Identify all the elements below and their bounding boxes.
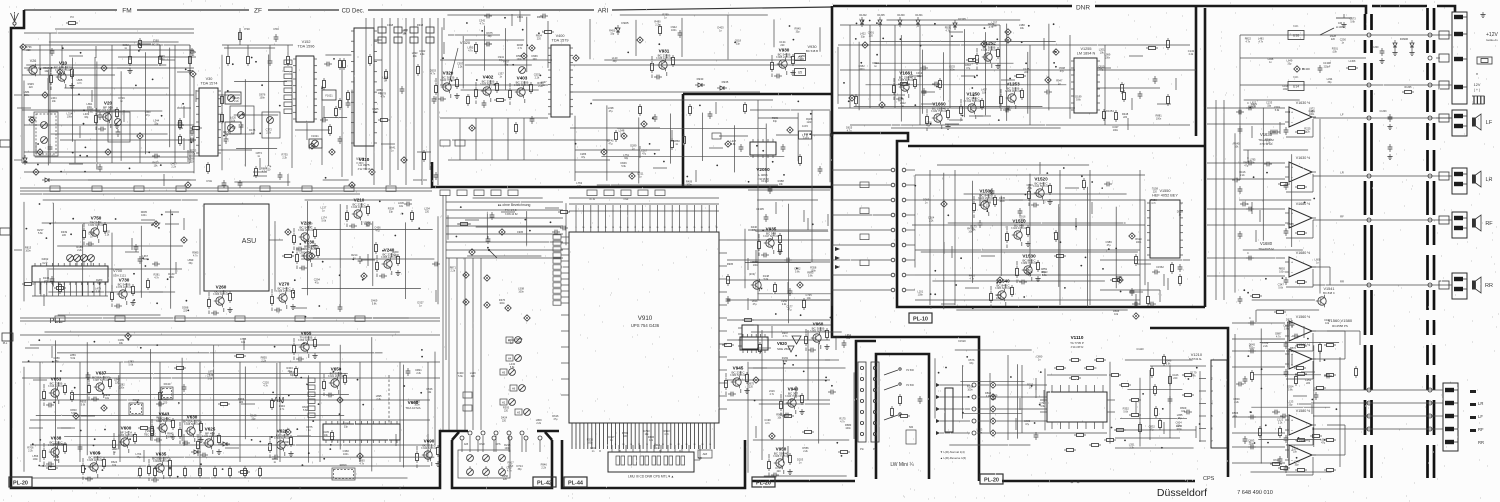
svg-text:V1560 ½: V1560 ½ [1296,343,1310,347]
svg-text:47µ: 47µ [1178,417,1183,420]
svg-text:DNR: DNR [1076,5,1090,12]
svg-text:100n: 100n [977,432,983,435]
svg-text:2.2k: 2.2k [282,156,287,159]
svg-text:100n: 100n [671,29,677,32]
svg-text:4.7n: 4.7n [664,433,669,436]
svg-text:24: 24 [686,227,688,229]
svg-text:2.2k: 2.2k [782,303,787,306]
svg-text:D935: D935 [722,80,729,84]
svg-text:FM: FM [122,8,131,15]
svg-text:3 992 9923 08: 3 992 9923 08 [298,229,315,232]
svg-text:K1520: K1520 [958,339,966,343]
svg-text:N.F.: N.F. [1293,24,1299,28]
svg-text:PL-42: PL-42 [537,481,552,487]
svg-text:X 337c: X 337c [356,162,364,165]
svg-text:47µ: 47µ [608,142,613,145]
svg-text:C: C [1247,203,1249,206]
svg-text:C1300: C1300 [1371,46,1379,49]
svg-text:4.7n: 4.7n [280,408,285,411]
svg-text:V1541: V1541 [1324,287,1335,291]
svg-text:ZF: ZF [254,8,262,15]
svg-text:17: 17 [634,227,636,229]
svg-text:4.7n: 4.7n [507,470,512,473]
svg-text:3 976 1663 08: 3 976 1663 08 [116,286,133,289]
svg-text:4.7n: 4.7n [380,95,385,98]
svg-text:100n: 100n [414,403,420,406]
svg-text:33p: 33p [917,75,922,78]
svg-text:35: 35 [709,444,711,446]
svg-text:CD Dec.: CD Dec. [342,9,365,15]
svg-text:V1255: V1255 [1081,47,1092,51]
svg-text:C: C [1247,252,1249,255]
svg-text:16: 16 [627,227,629,229]
svg-text:5.6k: 5.6k [54,459,59,462]
svg-text:5.6k: 5.6k [71,412,76,415]
svg-text:C: C [1249,317,1251,320]
svg-text:4.7n: 4.7n [1274,462,1279,465]
svg-text:5.6k: 5.6k [38,232,43,235]
svg-text:220: 220 [224,134,229,137]
svg-text:3 917 8273 08: 3 917 8273 08 [763,235,780,238]
svg-text:BC 548 B: BC 548 B [806,49,818,53]
svg-text:LR: LR [1340,171,1344,175]
svg-text:C1308: C1308 [1323,61,1331,65]
svg-text:47µ: 47µ [375,230,380,233]
svg-text:26: 26 [701,227,703,229]
svg-text:RF: RF [1340,215,1344,219]
svg-text:3 RN 44 82: 3 RN 44 82 [505,213,518,216]
svg-text:V1680 ½: V1680 ½ [1296,202,1310,206]
svg-text:PL-20: PL-20 [756,481,771,487]
svg-text:3 989 7193 08: 3 989 7193 08 [1021,262,1038,265]
svg-text:100n: 100n [999,200,1005,203]
svg-text:5.6k: 5.6k [1042,274,1047,277]
svg-text:100n: 100n [505,447,511,450]
svg-text:47µ: 47µ [553,418,558,421]
svg-text:C2 T: C2 T [42,262,48,265]
svg-text:UPS 754 G436: UPS 754 G436 [631,323,660,328]
svg-text:C905: C905 [517,230,524,234]
svg-text:11: 11 [590,227,592,229]
svg-text:220: 220 [869,35,874,38]
svg-text:12V: 12V [1474,83,1481,87]
svg-text:100n: 100n [996,297,1002,300]
svg-text:7: 7 [599,444,600,446]
svg-text:3 920 4703 08: 3 920 4703 08 [1011,227,1028,230]
svg-text:100n: 100n [918,294,924,297]
svg-text:7 648 490 010: 7 648 490 010 [1237,490,1273,496]
svg-text:C1305: C1305 [756,207,764,211]
svg-text:47µ: 47µ [1287,321,1292,324]
svg-text:LF: LF [1340,113,1344,117]
svg-text:100n: 100n [967,389,973,392]
svg-text:4.7n: 4.7n [989,26,994,29]
svg-text:3 940 7603 08: 3 940 7603 08 [440,79,457,82]
svg-text:3 966 3363 08: 3 966 3363 08 [213,293,230,296]
svg-text:PL-20: PL-20 [13,481,28,487]
svg-text:47µ: 47µ [966,67,971,70]
svg-text:100n: 100n [753,264,759,267]
svg-text:220: 220 [517,341,522,344]
svg-text:100n: 100n [33,458,39,461]
svg-text:3 932 7523 08: 3 932 7523 08 [931,110,948,113]
svg-text:4.7n: 4.7n [1245,41,1250,44]
svg-text:R318: R318 [417,23,424,27]
svg-text:3 912 5523 08: 3 912 5523 08 [965,100,982,103]
svg-text:3 916 1063 08: 3 916 1063 08 [48,385,65,388]
svg-text:R601: R601 [537,15,544,19]
svg-text:4.7n: 4.7n [359,463,364,466]
svg-text:100n: 100n [1249,443,1255,446]
svg-text:47µ: 47µ [1107,244,1112,247]
svg-text:220: 220 [471,375,476,378]
svg-text:V1630 ½: V1630 ½ [1296,156,1310,160]
svg-text:H2: H2 [502,401,506,405]
svg-text:D1302: D1302 [859,14,867,17]
svg-text:3 960 1503 08: 3 960 1503 08 [48,444,65,447]
svg-text:2.2k: 2.2k [541,466,546,469]
svg-text:3 941 88 52: 3 941 88 52 [1071,346,1084,349]
svg-text:H3: H3 [517,411,521,415]
svg-text:5.6k: 5.6k [1040,405,1045,408]
svg-text:220: 220 [1123,116,1128,119]
svg-text:DNR: DNR [479,443,484,446]
svg-text:C318: C318 [387,23,394,27]
svg-text:D30: D30 [153,39,159,43]
svg-text:220: 220 [1173,377,1178,380]
svg-text:2.2k: 2.2k [803,450,808,453]
svg-text:D930: D930 [697,77,704,81]
svg-text:5.6k: 5.6k [808,274,813,277]
svg-text:220: 220 [780,44,785,47]
svg-text:2.2k: 2.2k [538,85,543,88]
svg-text:100n: 100n [949,69,955,72]
svg-text:LW Mini ¼: LW Mini ¼ [890,462,914,468]
svg-text:100n: 100n [518,291,524,294]
svg-text:100n: 100n [1279,270,1285,273]
svg-text:100n: 100n [1309,111,1315,114]
svg-text:4.7n: 4.7n [77,82,82,85]
svg-text:F660: F660 [340,463,347,467]
svg-text:L1308: L1308 [1349,60,1356,63]
svg-text:15: 15 [630,444,632,446]
svg-text:C1562: C1562 [1156,265,1164,269]
svg-text:2.2k: 2.2k [105,234,110,237]
svg-text:+12V: +12V [1486,32,1498,38]
svg-text:H5: H5 [502,371,506,375]
svg-text:33p: 33p [488,35,493,38]
svg-text:PL-20: PL-20 [984,478,999,484]
svg-text:V1680 ½: V1680 ½ [1296,251,1310,255]
svg-text:3 983 6233 08: 3 983 6233 08 [995,287,1012,290]
svg-text:5.6k: 5.6k [764,278,769,281]
svg-text:47µ: 47µ [315,282,320,285]
svg-text:9: 9 [576,227,577,229]
svg-text:V1580 ½: V1580 ½ [1296,409,1310,413]
svg-text:0.5Ω: 0.5Ω [206,179,212,183]
svg-text:4.7n: 4.7n [1151,202,1156,205]
svg-text:33p: 33p [285,444,290,447]
svg-text:3: 3 [583,444,584,446]
svg-text:LR: LR [1478,401,1483,406]
svg-text:220: 220 [800,58,805,61]
svg-text:220: 220 [1024,71,1029,74]
svg-text:HEF 4052 BEY: HEF 4052 BEY [1152,193,1178,197]
svg-text:3 921 2013 08: 3 921 2013 08 [328,375,345,378]
svg-text:1: 1 [576,444,577,446]
svg-text:33p: 33p [1288,403,1293,406]
svg-text:V920: V920 [777,341,787,346]
svg-text:2.2k: 2.2k [420,53,425,56]
svg-text:220: 220 [163,401,168,404]
svg-text:2.2k: 2.2k [1189,53,1194,56]
svg-text:47µ: 47µ [307,226,312,229]
svg-text:2.2k: 2.2k [266,132,271,135]
svg-text:220: 220 [239,401,244,404]
svg-text:100n: 100n [686,184,692,187]
svg-text:C50: C50 [273,27,279,31]
svg-text:4.7n: 4.7n [88,111,93,114]
svg-text:33p: 33p [290,374,295,377]
svg-text:BC 848 C: BC 848 C [1323,291,1335,295]
svg-text:100n: 100n [499,302,505,305]
svg-text:4.0V: 4.0V [802,124,808,128]
svg-text:V26: V26 [30,59,36,63]
svg-text:D0906: D0906 [1400,37,1409,41]
svg-text:13: 13 [605,227,607,229]
svg-text:4.7n: 4.7n [1258,41,1263,44]
svg-text:220: 220 [777,470,782,473]
svg-text:3 944 6743 08: 3 944 6743 08 [421,447,438,450]
svg-text:33: 33 [701,444,703,446]
svg-text:2.2k: 2.2k [261,359,266,362]
svg-text:BC 30c: BC 30c [152,43,161,46]
svg-text:20: 20 [656,227,658,229]
svg-text:Düsseldorf: Düsseldorf [1157,487,1207,499]
svg-text:ARI: ARI [598,8,609,15]
svg-text:5.6k: 5.6k [178,127,183,130]
svg-text:5.6k: 5.6k [1166,363,1171,366]
svg-text:28: 28 [716,227,718,229]
svg-text:100n: 100n [587,442,593,445]
svg-text:23: 23 [679,227,681,229]
svg-text:▸▸ ohne Bezeichnung: ▸▸ ohne Bezeichnung [498,203,531,207]
svg-text:33p: 33p [861,35,866,38]
svg-text:3 966 1563 08: 3 966 1563 08 [276,290,293,293]
svg-text:220: 220 [1331,38,1336,41]
svg-text:2.2k: 2.2k [536,422,541,425]
svg-text:P1 500: P1 500 [906,369,914,372]
svg-text:5.6k: 5.6k [208,378,213,381]
svg-text:TDA2005 M: TDA2005 M [1258,247,1274,251]
svg-text:220: 220 [537,38,542,41]
svg-text:RF: RF [1485,221,1493,227]
svg-text:TBC 548C: TBC 548C [144,433,156,437]
svg-text:3 928 7483 08: 3 928 7483 08 [773,455,790,458]
svg-text:ASU: ASU [242,238,256,245]
svg-text:5.6k: 5.6k [1076,99,1081,102]
svg-text:5.6k: 5.6k [96,290,101,293]
svg-text:220: 220 [503,478,508,481]
svg-text:33p: 33p [84,116,89,119]
svg-text:2.2k: 2.2k [1240,174,1245,177]
svg-text:TDA 1072A: TDA 1072A [405,406,420,410]
svg-text:47µ: 47µ [288,370,293,373]
svg-text:4.7n: 4.7n [468,50,473,53]
svg-text:D905: D905 [621,21,629,25]
svg-text:23: 23 [662,444,664,446]
svg-text:4.7n: 4.7n [765,422,770,425]
svg-text:15: 15 [619,227,621,229]
svg-text:5.6k: 5.6k [322,219,327,222]
svg-text:U5: U5 [798,70,802,74]
svg-text:100n: 100n [1283,88,1289,91]
svg-text:D1305: D1305 [877,14,885,17]
svg-text:P.0: P.0 [70,15,74,19]
svg-text:220: 220 [1306,382,1311,385]
svg-text:3 925 9253 08: 3 925 9253 08 [87,459,104,462]
svg-text:33p: 33p [393,254,398,257]
svg-text:D1301: D1301 [915,14,923,17]
svg-text:47µ: 47µ [1321,442,1326,445]
svg-text:220: 220 [860,68,865,71]
svg-text:2.2k: 2.2k [1027,187,1032,190]
svg-text:47µ: 47µ [753,303,758,306]
svg-text:100n: 100n [807,121,813,124]
svg-text:220: 220 [190,161,195,164]
svg-text:*: * [1476,73,1478,79]
svg-text:TDA 1579: TDA 1579 [552,38,569,42]
svg-text:5.6k: 5.6k [783,360,788,363]
svg-text:47µ: 47µ [609,110,614,113]
svg-text:2.2k: 2.2k [1234,401,1239,404]
svg-text:11: 11 [615,444,617,446]
svg-text:V152: V152 [302,40,311,44]
svg-text:4.7n: 4.7n [154,277,159,280]
svg-text:( + ): ( + ) [1474,88,1480,92]
svg-text:3 980 5303 08: 3 980 5303 08 [730,374,747,377]
svg-text:100n: 100n [67,116,73,119]
svg-text:220: 220 [1252,106,1257,109]
svg-text:S60: S60 [909,426,914,429]
svg-text:5.6k: 5.6k [731,143,736,146]
svg-text:3 965 2453 08: 3 965 2453 08 [776,56,793,59]
svg-text:33p: 33p [389,211,394,214]
svg-text:D1595: D1595 [958,17,966,21]
svg-text:5.6k: 5.6k [1288,388,1293,391]
svg-text:4.7n: 4.7n [840,421,845,424]
svg-text:27: 27 [708,227,710,229]
svg-text:100n: 100n [343,453,349,456]
svg-text:LF: LF [1478,414,1483,419]
svg-text:C1110: C1110 [1136,347,1144,351]
svg-text:10: 10 [582,227,584,229]
svg-text:5.6k: 5.6k [510,366,515,369]
svg-text:2.2k: 2.2k [535,77,540,80]
svg-text:CPS: CPS [496,443,501,446]
svg-text:C: C [1247,102,1249,105]
svg-text:TA 7705 P: TA 7705 P [1070,341,1084,345]
svg-text:220: 220 [1153,190,1158,193]
svg-text:Pin: Pin [860,447,864,451]
svg-text:47µ: 47µ [136,456,141,459]
svg-text:⊖–⊖: ⊖–⊖ [1070,479,1080,484]
svg-text:33p: 33p [55,360,60,363]
svg-text:100n: 100n [260,97,266,100]
svg-text:100n: 100n [1105,56,1111,59]
svg-text:5.6k: 5.6k [1275,109,1280,112]
svg-text:PL-10: PL-10 [913,317,928,323]
svg-text:2.2k: 2.2k [458,65,463,68]
svg-text:V1630 ½: V1630 ½ [1296,101,1310,105]
svg-text:LM 1894 N: LM 1894 N [1077,51,1096,55]
svg-text:5.6k: 5.6k [621,165,626,168]
svg-text:31: 31 [694,444,696,446]
svg-text:47µ: 47µ [97,282,102,285]
svg-text:100n: 100n [373,111,379,114]
svg-text:13: 13 [622,444,624,446]
svg-text:4.7n: 4.7n [752,229,757,232]
svg-text:220: 220 [143,258,148,261]
svg-text:Geräte-An.: Geräte-An. [1486,39,1499,42]
svg-text:33p: 33p [344,426,349,429]
svg-text:47µ: 47µ [29,119,34,122]
svg-text:2.2k: 2.2k [28,449,33,452]
svg-text:3 949 7693 08: 3 949 7693 08 [785,395,802,398]
svg-text:19: 19 [649,227,651,229]
svg-text:F1621: F1621 [325,94,333,98]
svg-text:2.2k: 2.2k [1278,421,1283,424]
svg-text:100n: 100n [517,58,523,61]
svg-text:33p: 33p [613,60,618,63]
svg-text:100n: 100n [1249,346,1255,349]
svg-text:PL-44: PL-44 [568,481,584,487]
svg-text:F1621: F1621 [311,134,319,138]
svg-text:18: 18 [642,227,644,229]
svg-text:100n: 100n [159,58,165,61]
svg-text:V400: V400 [556,34,565,38]
svg-text:PLL: PLL [3,341,8,345]
svg-text:100n: 100n [1136,241,1142,244]
svg-text:4.7n: 4.7n [769,393,774,396]
svg-text:V910: V910 [638,315,653,322]
svg-text:V1110: V1110 [1071,335,1084,340]
svg-text:F640: F640 [164,382,171,386]
svg-text:4.7n: 4.7n [431,73,436,76]
svg-text:2.2k: 2.2k [234,100,239,103]
svg-text:H4: H4 [508,357,512,361]
svg-text:RC4558 PS: RC4558 PS [1332,324,1348,328]
svg-text:33p: 33p [1287,63,1292,66]
svg-text:5.6k: 5.6k [372,303,377,306]
svg-text:47µ: 47µ [1060,70,1065,73]
svg-text:R1305: R1305 [1404,86,1412,89]
svg-text:33p: 33p [157,419,162,422]
svg-text:4.7n: 4.7n [945,30,950,33]
svg-text:3 959 3293 08: 3 959 3293 08 [298,339,315,342]
svg-text:RF: RF [1478,427,1484,432]
svg-text:PLL: PLL [49,316,62,325]
svg-text:100n: 100n [1156,118,1162,121]
svg-text:5.6k: 5.6k [795,271,800,274]
svg-text:D1300: D1300 [897,14,905,17]
svg-text:2.2k: 2.2k [929,219,934,222]
svg-text:RR: RR [1340,280,1344,284]
svg-text:3 930 3003 08: 3 930 3003 08 [88,224,105,227]
svg-text:220: 220 [425,211,430,214]
svg-text:220: 220 [502,420,507,423]
svg-text:100n: 100n [1176,428,1182,431]
